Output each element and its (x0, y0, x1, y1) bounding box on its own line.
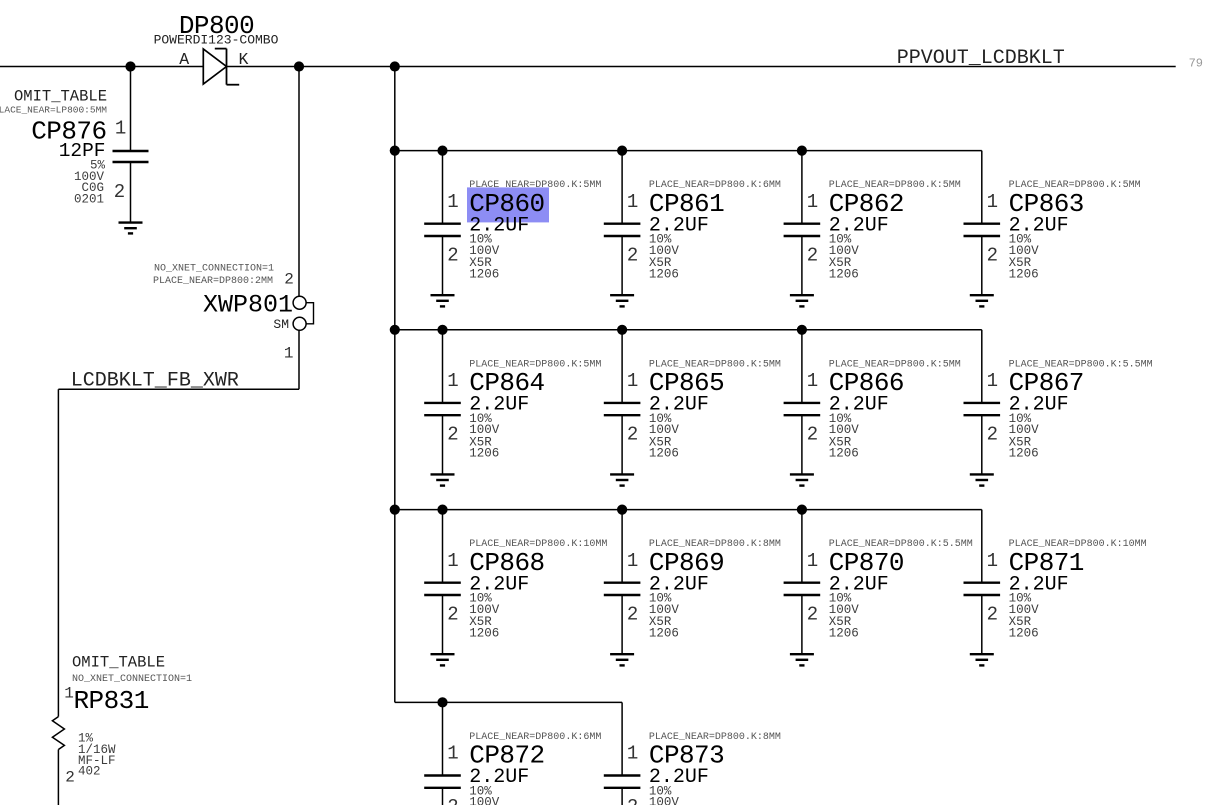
junction node at capacitor bank branch (390, 61, 400, 71)
svg-text:1: 1 (987, 370, 998, 392)
svg-text:1206: 1206 (829, 626, 859, 640)
junction node CP861 at bus (617, 146, 627, 156)
svg-text:0201: 0201 (74, 192, 104, 206)
wire PPVOUT_LCDBKLT top rail right segment (227, 66, 1176, 68)
ground symbol below CP870 (790, 653, 814, 655)
svg-text:NO_XNET_CONNECTION=1: NO_XNET_CONNECTION=1 (72, 674, 192, 685)
svg-text:2: 2 (627, 603, 638, 625)
capacitor CP873 2.2UF (604, 702, 781, 810)
capacitor CP864 plates (424, 402, 461, 404)
svg-text:OMIT_TABLE: OMIT_TABLE (14, 87, 107, 105)
svg-text:1: 1 (447, 370, 458, 392)
svg-text:1206: 1206 (469, 267, 499, 281)
wire PPVOUT_LCDBKLT top rail left segment (0, 66, 203, 68)
svg-text:1: 1 (627, 743, 638, 765)
ground symbol below CP869 (610, 653, 634, 655)
wire CP863 pin2 to ground (981, 236, 983, 295)
svg-text:402: 402 (78, 765, 101, 779)
wire CP871 pin1 (981, 510, 983, 583)
wire CP867 pin1 (981, 330, 983, 403)
capacitor CP876 plates (113, 150, 149, 152)
ground symbol below CP868 (431, 653, 455, 655)
capacitor CP865 plates (604, 402, 641, 404)
svg-text:1: 1 (447, 191, 458, 213)
svg-text:1206: 1206 (1009, 447, 1039, 461)
ground symbol below CP863 (970, 294, 994, 296)
wire CP860 pin1 (442, 151, 444, 224)
svg-text:1: 1 (807, 191, 818, 213)
wire CP861 pin1 (621, 151, 623, 224)
wire bus row 2 (395, 329, 982, 331)
wire CP863 pin1 (981, 151, 983, 224)
wire CP865 pin2 to ground (621, 415, 623, 474)
wire CP869 pin1 (621, 510, 623, 583)
svg-text:1: 1 (807, 550, 818, 572)
wire CP871 pin2 to ground (981, 595, 983, 654)
svg-text:2: 2 (987, 603, 998, 625)
wire CP869 pin2 to ground (621, 595, 623, 654)
capacitor CP866 2.2UF (784, 325, 961, 486)
junction node bus row 3 at main feed (390, 505, 400, 515)
wire XWP801 pin1 down (298, 330, 300, 389)
svg-text:1: 1 (447, 743, 458, 765)
wire CP860 pin2 to ground (442, 236, 444, 295)
wire bus row 1 (395, 150, 982, 152)
wire LCDBKLT_FB_XWR horizontal (58, 388, 299, 390)
jumper pin circle top (293, 296, 306, 309)
svg-text:SM: SM (273, 317, 289, 332)
ground symbol below CP861 (610, 294, 634, 296)
svg-text:1: 1 (627, 370, 638, 392)
svg-text:OMIT_TABLE: OMIT_TABLE (72, 654, 165, 672)
wire bus row 4 (395, 701, 622, 703)
wire CP866 pin1 (801, 330, 803, 403)
junction node CP862 at bus (797, 146, 807, 156)
svg-text:RP831: RP831 (74, 686, 149, 716)
svg-text:1: 1 (807, 370, 818, 392)
capacitor CP871 plates (964, 582, 1001, 584)
svg-text:2: 2 (807, 424, 818, 446)
svg-text:1206: 1206 (469, 447, 499, 461)
svg-text:1206: 1206 (1009, 626, 1039, 640)
svg-text:2: 2 (987, 424, 998, 446)
ground symbol below CP864 (431, 473, 455, 475)
capacitor CP873 plates (604, 774, 641, 776)
capacitor CP870 2.2UF (784, 505, 973, 666)
capacitor CP860 2.2UF (424, 146, 601, 307)
capacitor CP868 2.2UF (424, 505, 607, 666)
capacitor CP860 plates (424, 222, 461, 224)
svg-text:1: 1 (987, 550, 998, 572)
junction node CP872 at bus (437, 697, 447, 707)
svg-text:1: 1 (447, 550, 458, 572)
svg-text:1206: 1206 (649, 447, 679, 461)
resistor zigzag body (52, 717, 64, 750)
ground symbol below CP860 (431, 294, 455, 296)
svg-text:PLACE_NEAR=LP800:5MM: PLACE_NEAR=LP800:5MM (0, 104, 107, 115)
wire CP865 pin1 (621, 330, 623, 403)
jumper pin circle bottom (293, 317, 306, 330)
svg-text:1: 1 (987, 191, 998, 213)
capacitor CP868 plates (424, 582, 461, 584)
svg-text:1206: 1206 (469, 626, 499, 640)
wire CP862 pin2 to ground (801, 236, 803, 295)
junction node CP868 at bus (437, 505, 447, 515)
svg-text:2: 2 (987, 244, 998, 266)
wire LCDBKLT_FB_XWR vertical down to RP831 (57, 389, 59, 716)
capacitor CP876 12PF (0, 67, 149, 234)
wire CP872 pin1 (442, 702, 444, 775)
wire CP870 pin1 (801, 510, 803, 583)
wire CP873 pin2 to ground (621, 788, 623, 810)
svg-text:1: 1 (627, 550, 638, 572)
wire XWP801 pin2 from rail (298, 67, 300, 297)
capacitor CP867 2.2UF (964, 330, 1153, 486)
wire CP868 pin2 to ground (442, 595, 444, 654)
wire CP864 pin1 (442, 330, 444, 403)
wire CP873 pin1 (621, 702, 623, 775)
wire CP866 pin2 to ground (801, 415, 803, 474)
svg-text:2: 2 (627, 244, 638, 266)
capacitor CP863 2.2UF (964, 151, 1141, 307)
wire CP864 pin2 to ground (442, 415, 444, 474)
jumper shorting bar (306, 303, 313, 324)
junction node CP869 at bus (617, 505, 627, 515)
svg-text:2: 2 (114, 181, 125, 203)
svg-text:2: 2 (447, 603, 458, 625)
svg-text:XWP801: XWP801 (203, 290, 293, 319)
junction node CP864 at bus (437, 325, 447, 335)
wire CP868 pin1 (442, 510, 444, 583)
svg-text:K: K (239, 50, 249, 69)
svg-text:1206: 1206 (649, 626, 679, 640)
wire CP867 pin2 to ground (981, 415, 983, 474)
svg-text:100V: 100V (469, 796, 500, 805)
svg-text:A: A (179, 50, 189, 69)
capacitor CP862 2.2UF (784, 146, 961, 307)
capacitor CP861 2.2UF (604, 146, 781, 307)
svg-text:POWERDI123-COMBO: POWERDI123-COMBO (154, 33, 279, 48)
capacitor CP863 plates (964, 222, 1001, 224)
resistor RP831 (52, 654, 192, 806)
wire CP870 pin2 to ground (801, 595, 803, 654)
capacitor CP865 2.2UF (604, 325, 781, 486)
svg-text:1206: 1206 (1009, 267, 1039, 281)
wire bus row 3 (395, 509, 982, 511)
svg-text:2: 2 (807, 603, 818, 625)
svg-text:1: 1 (284, 345, 294, 363)
ground symbol below CP865 (610, 473, 634, 475)
junction node bus row 1 at main feed (390, 146, 400, 156)
wire CP872 pin2 to ground (442, 788, 444, 810)
svg-text:1: 1 (627, 191, 638, 213)
svg-text:2: 2 (807, 244, 818, 266)
svg-text:79: 79 (1189, 56, 1203, 70)
svg-text:1206: 1206 (829, 447, 859, 461)
junction node CP870 at bus (797, 505, 807, 515)
ground symbol below CP871 (970, 653, 994, 655)
capacitor CP861 plates (604, 222, 641, 224)
selection highlight on CP860 (467, 187, 549, 222)
svg-text:100V: 100V (649, 796, 680, 805)
svg-text:1: 1 (115, 118, 126, 140)
ground symbol below CP866 (790, 473, 814, 475)
junction node CP860 at bus (437, 146, 447, 156)
ground symbol below CP876 (119, 221, 143, 223)
svg-text:PPVOUT_LCDBKLT: PPVOUT_LCDBKLT (897, 47, 1065, 70)
capacitor CP864 2.2UF (424, 325, 601, 486)
svg-text:2: 2 (65, 769, 75, 787)
ground symbol below CP862 (790, 294, 814, 296)
junction node CP865 at bus (617, 325, 627, 335)
svg-text:2: 2 (627, 424, 638, 446)
wire main vertical feed from rail to row buses (394, 67, 396, 703)
capacitor CP871 2.2UF (964, 510, 1147, 666)
svg-text:2: 2 (627, 796, 638, 805)
svg-text:NO_XNET_CONNECTION=1: NO_XNET_CONNECTION=1 (154, 264, 274, 275)
svg-text:1: 1 (64, 685, 74, 703)
wire CP876 pin1 (130, 67, 132, 152)
diode DP800 POWERDI123-COMBO (203, 49, 239, 85)
wire CP861 pin2 to ground (621, 236, 623, 295)
svg-text:2: 2 (447, 424, 458, 446)
ground symbol below CP867 (970, 473, 994, 475)
capacitor CP870 plates (784, 582, 821, 584)
capacitor CP872 plates (424, 774, 461, 776)
capacitor CP872 2.2UF (424, 697, 601, 810)
junction node CP866 at bus (797, 325, 807, 335)
svg-text:2: 2 (447, 796, 458, 805)
junction node at XWP801 branch (294, 61, 304, 71)
junction node at CP876 branch (125, 61, 135, 71)
svg-text:PLACE_NEAR=DP800:2MM: PLACE_NEAR=DP800:2MM (153, 276, 273, 287)
wire RP831 pin2 down off page (57, 750, 59, 806)
svg-text:1206: 1206 (829, 267, 859, 281)
svg-text:2: 2 (284, 271, 294, 289)
junction node bus row 2 at main feed (390, 325, 400, 335)
wire CP876 pin2 to ground (130, 162, 132, 223)
svg-text:2: 2 (447, 244, 458, 266)
capacitor CP869 2.2UF (604, 505, 781, 666)
capacitor CP862 plates (784, 222, 821, 224)
svg-text:1206: 1206 (649, 267, 679, 281)
capacitor CP867 plates (964, 402, 1001, 404)
capacitor CP866 plates (784, 402, 821, 404)
capacitor CP869 plates (604, 582, 641, 584)
wire CP862 pin1 (801, 151, 803, 224)
jumper XWP801 (153, 67, 314, 390)
